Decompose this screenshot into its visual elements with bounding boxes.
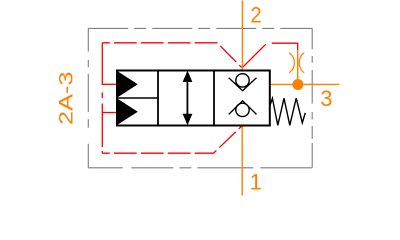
svg-text:3: 3	[320, 86, 332, 111]
svg-text:1: 1	[250, 169, 262, 194]
svg-text:2A-3: 2A-3	[57, 72, 78, 126]
svg-text:2: 2	[250, 3, 261, 28]
